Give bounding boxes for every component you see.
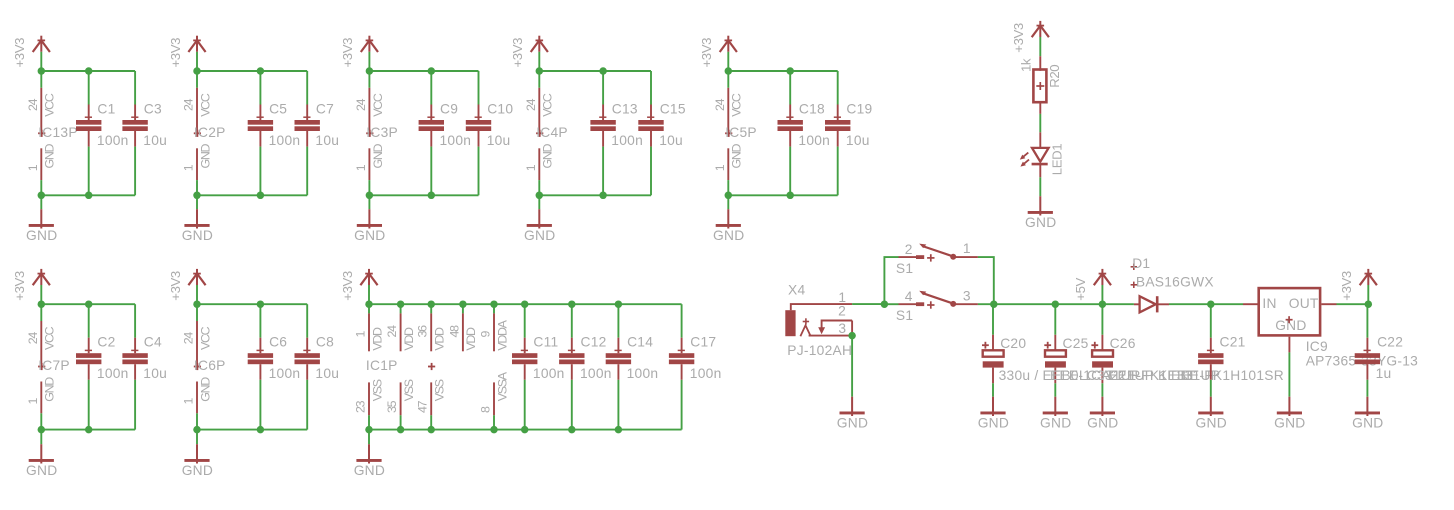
junction (IC4P GND) xyxy=(536,192,544,200)
svg-text:10u: 10u xyxy=(846,133,870,148)
supply +3V3 (IC6P) xyxy=(168,269,206,304)
svg-text:C4: C4 xyxy=(144,335,162,350)
svg-text:C21: C21 xyxy=(1220,335,1246,350)
svg-text:+3V3: +3V3 xyxy=(12,38,27,68)
svg-text:1k: 1k xyxy=(1018,58,1033,72)
svg-text:+3V3: +3V3 xyxy=(510,38,525,68)
supply +5V xyxy=(1073,269,1111,304)
svg-text:C1: C1 xyxy=(97,102,115,117)
svg-text:VCC: VCC xyxy=(43,93,57,117)
svg-text:100n: 100n xyxy=(97,133,129,148)
junction (IC1P pin 1) xyxy=(365,300,373,308)
svg-text:4: 4 xyxy=(905,289,913,304)
svg-text:100n: 100n xyxy=(97,366,129,381)
wire to switch S1 top gate xyxy=(884,257,898,304)
junction (C11 bottom) xyxy=(521,426,529,434)
svg-text:C14: C14 xyxy=(627,335,653,350)
wire bottom rail (IC2P) xyxy=(197,194,307,196)
capacitor C12 xyxy=(559,304,612,429)
svg-text:GND: GND xyxy=(43,144,57,169)
svg-text:VCC: VCC xyxy=(730,93,744,117)
junction (C14 bottom) xyxy=(615,426,623,434)
svg-text:X4: X4 xyxy=(788,282,805,297)
svg-text:47: 47 xyxy=(416,400,430,413)
junction (IC2P VCC) xyxy=(193,67,201,75)
junction (IC3P VCC) xyxy=(366,67,374,75)
svg-text:VDD: VDD xyxy=(402,327,416,351)
svg-text:D1: D1 xyxy=(1132,256,1150,271)
capacitor C19 xyxy=(825,71,873,195)
capacitor C26 xyxy=(1091,304,1135,383)
svg-text:1u: 1u xyxy=(1376,366,1392,381)
svg-text:GND: GND xyxy=(1274,415,1305,430)
wire node to switch S1 bottom gate xyxy=(884,303,898,305)
ground (C26) xyxy=(1087,383,1118,430)
junction (IC5P VCC) xyxy=(725,67,733,75)
svg-text:C26: C26 xyxy=(1110,336,1136,351)
svg-text:10u: 10u xyxy=(143,133,167,148)
ground (C20) xyxy=(978,383,1009,430)
wire R20 to LED1 xyxy=(1039,114,1041,132)
ground (IC2P) xyxy=(182,195,213,243)
svg-text:VCC: VCC xyxy=(198,326,212,350)
svg-text:100n: 100n xyxy=(627,366,659,381)
svg-text:GND: GND xyxy=(978,415,1009,430)
svg-text:C25: C25 xyxy=(1063,336,1089,351)
svg-text:C11: C11 xyxy=(533,335,558,350)
junction (C9 bottom) xyxy=(428,192,436,200)
junction (IC1P pin 23 bottom) xyxy=(365,426,373,434)
svg-text:+3V3: +3V3 xyxy=(168,38,183,68)
ground (IC6P) xyxy=(182,430,213,478)
supply +3V3 (IC7P) xyxy=(12,269,50,304)
svg-text:100n: 100n xyxy=(611,133,643,148)
svg-text:100n: 100n xyxy=(580,366,612,381)
svg-text:+3V3: +3V3 xyxy=(340,38,355,68)
supply +3V3 (IC5P) xyxy=(699,36,737,71)
svg-text:48: 48 xyxy=(447,325,461,338)
capacitor C21 xyxy=(1198,304,1245,380)
svg-text:24: 24 xyxy=(385,325,399,338)
svg-text:3: 3 xyxy=(963,288,971,303)
svg-text:C10: C10 xyxy=(487,102,513,117)
IC power gate IC2P xyxy=(182,71,226,195)
connector X4 (PJ-102AH) xyxy=(785,282,852,358)
svg-text:C7: C7 xyxy=(316,102,334,117)
svg-text:LED1: LED1 xyxy=(1050,144,1065,175)
capacitor values C20/C25/C26 xyxy=(999,368,1284,383)
junction (X4 pins 2/3) xyxy=(848,332,856,340)
wire top rail (IC13P) xyxy=(41,70,135,72)
wire C21 to IC9 xyxy=(1211,303,1243,305)
svg-text:C8: C8 xyxy=(316,335,334,350)
svg-text:GND: GND xyxy=(371,144,385,169)
ground (IC1P) xyxy=(354,430,385,478)
svg-text:10u: 10u xyxy=(315,133,339,148)
capacitor C3 xyxy=(122,71,167,195)
svg-text:S1: S1 xyxy=(896,261,913,276)
svg-text:IC6P: IC6P xyxy=(194,358,226,373)
capacitor C10 xyxy=(466,71,514,195)
junction (C5 bottom) xyxy=(257,192,265,200)
junction (C9 top) xyxy=(428,67,436,75)
capacitor C18 xyxy=(778,71,831,195)
svg-text:+3V3: +3V3 xyxy=(1011,23,1026,53)
svg-text:24: 24 xyxy=(182,98,196,111)
svg-text:C9: C9 xyxy=(440,102,458,117)
capacitor C22 xyxy=(1355,304,1403,381)
svg-text:GND: GND xyxy=(713,228,744,243)
LED LED1 xyxy=(1020,132,1065,177)
ground (IC13P) xyxy=(26,195,57,243)
svg-text:IC3P: IC3P xyxy=(366,125,398,140)
junction (IC1P pin 24) xyxy=(397,300,405,308)
svg-text:1: 1 xyxy=(963,241,971,256)
junction (C12 top) xyxy=(568,300,576,308)
svg-text:2: 2 xyxy=(838,304,846,319)
svg-text:10u: 10u xyxy=(487,133,511,148)
diode D1 (BAS16GWX) xyxy=(1131,256,1214,312)
IC power gate IC1P xyxy=(354,304,510,429)
junction (C1 bottom) xyxy=(85,192,93,200)
junction (IC13P GND) xyxy=(38,192,46,200)
svg-text:2: 2 xyxy=(905,242,913,257)
wire IC9 out to +3V3 node xyxy=(1337,303,1369,305)
svg-text:GND: GND xyxy=(730,144,744,169)
svg-text:24: 24 xyxy=(182,332,196,345)
capacitor C11 xyxy=(512,304,565,429)
svg-text:VCC: VCC xyxy=(541,93,555,117)
svg-text:C17: C17 xyxy=(690,335,716,350)
svg-text:C15: C15 xyxy=(660,102,686,117)
svg-text:VDD: VDD xyxy=(433,327,447,351)
capacitor C6 xyxy=(248,304,301,429)
svg-text:GND: GND xyxy=(198,144,212,169)
svg-text:24: 24 xyxy=(354,98,368,111)
svg-text:36: 36 xyxy=(416,325,430,338)
svg-text:GND: GND xyxy=(1087,415,1118,430)
junction (IC1P pin 47 bottom) xyxy=(427,426,435,434)
junction (IC6P GND) xyxy=(193,426,201,434)
capacitor C9 xyxy=(419,71,472,195)
wire bottom rail (IC1P) xyxy=(369,429,682,431)
junction (C13 top) xyxy=(599,67,607,75)
wire top rail (IC2P) xyxy=(197,70,307,72)
svg-text:C20: C20 xyxy=(1000,336,1026,351)
svg-text:VSS: VSS xyxy=(370,379,384,401)
junction (IC13P VCC) xyxy=(38,67,46,75)
svg-text:VDD: VDD xyxy=(370,327,384,351)
svg-text:IN: IN xyxy=(1262,296,1276,311)
IC power gate IC4P xyxy=(524,71,568,195)
svg-text:R20: R20 xyxy=(1047,65,1062,88)
ground (C21) xyxy=(1196,380,1227,431)
svg-text:GND: GND xyxy=(43,377,57,402)
regulator IC9 (AP7365) xyxy=(1243,288,1418,369)
junction (C18 bottom) xyxy=(786,192,794,200)
svg-text:+3V3: +3V3 xyxy=(12,271,27,301)
svg-text:24: 24 xyxy=(524,98,538,111)
svg-text:IC7P: IC7P xyxy=(38,358,70,373)
svg-text:VCC: VCC xyxy=(43,326,57,350)
capacitor C13 xyxy=(590,71,643,195)
junction (C2 bottom) xyxy=(85,426,93,434)
junction (C2 top) xyxy=(85,300,93,308)
junction (+3V3 out node) xyxy=(1365,300,1373,308)
capacitor C1 xyxy=(76,71,129,195)
wire +5V rail a xyxy=(994,303,1056,305)
svg-text:GND: GND xyxy=(26,463,57,478)
capacitor C4 xyxy=(122,304,167,429)
junction (IC1P pin 48) xyxy=(459,300,467,308)
capacitor C14 xyxy=(606,304,659,429)
capacitor C25 xyxy=(1044,304,1088,383)
junction (+5V / C26) xyxy=(1099,300,1107,308)
junction (switch input node) xyxy=(881,300,889,308)
svg-text:23: 23 xyxy=(354,400,368,413)
svg-text:100n: 100n xyxy=(440,133,472,148)
svg-text:10u: 10u xyxy=(659,133,683,148)
svg-text:VCC: VCC xyxy=(371,93,385,117)
junction (IC2P GND) xyxy=(193,192,201,200)
svg-text:GND: GND xyxy=(198,377,212,402)
svg-text:C2: C2 xyxy=(97,335,115,350)
wire top rail (IC4P) xyxy=(539,70,651,72)
ground (IC7P) xyxy=(26,430,57,478)
junction (+5V node at C20) xyxy=(990,300,998,308)
IC power gate IC6P xyxy=(182,304,226,429)
junction (IC6P VCC) xyxy=(193,300,201,308)
capacitor C20 xyxy=(982,304,1026,383)
svg-text:10u: 10u xyxy=(315,366,339,381)
junction (C6 bottom) xyxy=(257,426,265,434)
capacitor C5 xyxy=(248,71,301,195)
svg-text:VSS: VSS xyxy=(433,379,447,401)
junction (C21) xyxy=(1207,300,1215,308)
wire top rail (IC5P) xyxy=(728,70,837,72)
svg-text:VDDA: VDDA xyxy=(495,319,509,350)
wire +5V rail b xyxy=(1055,303,1102,305)
junction (IC3P GND) xyxy=(366,192,374,200)
junction (IC7P GND) xyxy=(38,426,46,434)
junction (IC7P VCC) xyxy=(38,300,46,308)
IC power gate IC13P xyxy=(26,71,78,195)
svg-text:C12: C12 xyxy=(581,335,607,350)
supply +3V3 (IC4P) xyxy=(510,36,548,71)
svg-text:GND: GND xyxy=(541,144,555,169)
switch S1 gate B (pins 4-3) xyxy=(896,288,978,323)
wire bottom rail (IC7P) xyxy=(41,429,135,431)
svg-text:VCC: VCC xyxy=(198,93,212,117)
svg-text:IC2P: IC2P xyxy=(194,125,226,140)
ground (IC9) xyxy=(1274,352,1305,430)
svg-text:C3: C3 xyxy=(144,102,162,117)
svg-text:IC13P: IC13P xyxy=(38,125,78,140)
svg-text:OUT: OUT xyxy=(1289,296,1319,311)
wire D1 to C21 xyxy=(1169,303,1211,305)
supply +3V3 (IC13P) xyxy=(12,36,50,71)
junction (IC1P pin 35 bottom) xyxy=(397,426,405,434)
wire bottom rail (IC6P) xyxy=(197,429,307,431)
supply +3V3 (IC3P) xyxy=(340,36,378,71)
wire X4 pin1 to node xyxy=(852,303,884,305)
svg-text:EEE-FK1H101SR: EEE-FK1H101SR xyxy=(1171,368,1284,383)
svg-text:24: 24 xyxy=(713,98,727,111)
junction (C13 bottom) xyxy=(599,192,607,200)
svg-text:GND: GND xyxy=(1352,415,1383,430)
svg-text:GND: GND xyxy=(354,228,385,243)
svg-text:PJ-102AH: PJ-102AH xyxy=(787,343,852,358)
junction (C1 top) xyxy=(85,67,93,75)
wire switch S1 bottom gate output xyxy=(978,303,994,305)
svg-text:100n: 100n xyxy=(533,366,565,381)
svg-text:IC4P: IC4P xyxy=(536,125,568,140)
supply +3V3 (IC2P) xyxy=(168,36,206,71)
svg-text:C6: C6 xyxy=(269,335,287,350)
junction (C25) xyxy=(1052,300,1060,308)
svg-text:1: 1 xyxy=(838,290,846,305)
svg-text:VSSA: VSSA xyxy=(495,371,509,401)
capacitor C7 xyxy=(295,71,340,195)
svg-text:C22: C22 xyxy=(1377,335,1403,350)
ground (C25) xyxy=(1040,383,1071,430)
svg-text:100n: 100n xyxy=(269,133,301,148)
svg-text:+3V3: +3V3 xyxy=(168,271,183,301)
capacitor C15 xyxy=(638,71,686,195)
svg-text:GND: GND xyxy=(837,415,868,430)
capacitor C8 xyxy=(295,304,340,429)
junction (C12 bottom) xyxy=(568,426,576,434)
ground (X4) xyxy=(837,336,868,431)
wire top rail (IC7P) xyxy=(41,303,135,305)
svg-text:GND: GND xyxy=(1196,415,1227,430)
svg-text:BAS16GWX: BAS16GWX xyxy=(1136,275,1214,290)
svg-text:100n: 100n xyxy=(690,366,722,381)
supply +3V3 (output) xyxy=(1339,269,1377,304)
ground (LED1) xyxy=(1025,177,1056,230)
svg-text:24: 24 xyxy=(26,98,40,111)
svg-text:C5: C5 xyxy=(269,102,287,117)
capacitor C17 xyxy=(669,304,722,429)
IC power gate IC5P xyxy=(713,71,757,195)
wire top rail (IC1P) xyxy=(369,303,682,305)
junction (IC1P pin 36) xyxy=(427,300,435,308)
junction (IC1P pin 9) xyxy=(490,300,498,308)
svg-text:IC1P: IC1P xyxy=(366,358,398,373)
svg-text:GND: GND xyxy=(354,463,385,478)
wire top rail (IC6P) xyxy=(197,303,307,305)
svg-text:+3V3: +3V3 xyxy=(340,271,355,301)
svg-text:3: 3 xyxy=(838,321,846,336)
svg-text:GND: GND xyxy=(26,228,57,243)
supply +3V3 (LED branch) xyxy=(1011,21,1049,56)
svg-text:100n: 100n xyxy=(269,366,301,381)
switch S1 gate A (pins 2-1) xyxy=(896,241,978,276)
junction (IC5P GND) xyxy=(725,192,733,200)
resistor R20 xyxy=(1018,56,1062,114)
ground (IC5P) xyxy=(713,195,744,243)
svg-text:C18: C18 xyxy=(799,102,825,117)
ground (IC3P) xyxy=(354,195,385,243)
junction (C6 top) xyxy=(257,300,265,308)
svg-text:GND: GND xyxy=(524,228,555,243)
svg-text:35: 35 xyxy=(385,400,399,413)
IC power gate IC7P xyxy=(26,304,70,429)
junction (C14 top) xyxy=(615,300,623,308)
svg-text:100n: 100n xyxy=(798,133,830,148)
wire top rail (IC3P) xyxy=(369,70,478,72)
svg-text:VDD: VDD xyxy=(464,327,478,351)
wire switch S1 top gate output xyxy=(978,257,994,304)
wire bottom rail (IC5P) xyxy=(728,194,837,196)
svg-text:GND: GND xyxy=(1040,415,1071,430)
svg-text:+3V3: +3V3 xyxy=(1339,271,1354,301)
wire C26 to D1 xyxy=(1102,303,1134,305)
ground (IC4P) xyxy=(524,195,555,243)
supply +3V3 (IC1P) xyxy=(340,269,378,304)
svg-text:+3V3: +3V3 xyxy=(699,38,714,68)
svg-text:S1: S1 xyxy=(896,308,913,323)
svg-text:10u: 10u xyxy=(143,366,167,381)
svg-text:GND: GND xyxy=(182,463,213,478)
svg-text:+5V: +5V xyxy=(1073,277,1088,300)
junction (C18 top) xyxy=(786,67,794,75)
svg-text:GND: GND xyxy=(182,228,213,243)
junction (IC4P VCC) xyxy=(536,67,544,75)
svg-text:24: 24 xyxy=(26,332,40,345)
svg-text:IC9: IC9 xyxy=(1306,339,1328,354)
svg-text:IC5P: IC5P xyxy=(725,125,757,140)
IC power gate IC3P xyxy=(354,71,398,195)
junction (C11 top) xyxy=(521,300,529,308)
svg-text:C13: C13 xyxy=(612,102,638,117)
junction (C5 top) xyxy=(257,67,265,75)
svg-text:GND: GND xyxy=(1025,215,1056,230)
wire bottom rail (IC4P) xyxy=(539,194,651,196)
wire bottom rail (IC3P) xyxy=(369,194,478,196)
junction (IC1P pin 8 bottom) xyxy=(490,426,498,434)
svg-text:C19: C19 xyxy=(846,102,872,117)
wire bottom rail (IC13P) xyxy=(41,194,135,196)
ground (C22) xyxy=(1352,380,1383,431)
capacitor C2 xyxy=(76,304,129,429)
svg-text:VSS: VSS xyxy=(402,379,416,401)
